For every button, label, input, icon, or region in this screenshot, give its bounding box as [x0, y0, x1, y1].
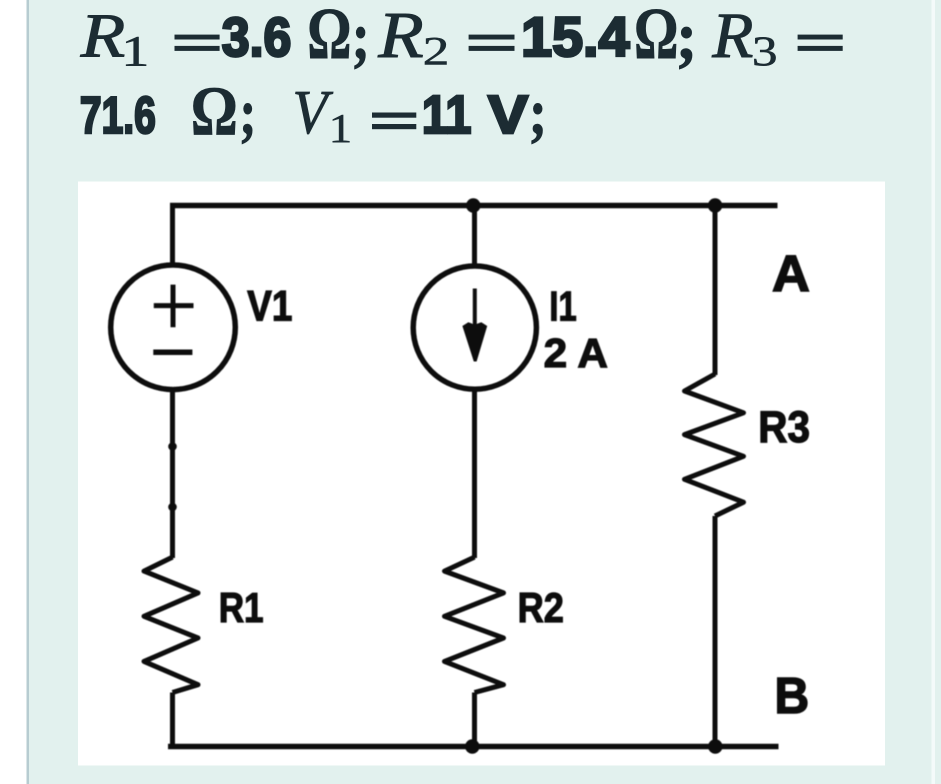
svg-text:;: ;	[529, 76, 547, 148]
wire V1 to R1	[170, 390, 175, 558]
svg-text:B: B	[775, 668, 810, 725]
header equals 1	[175, 35, 220, 40]
I1 arrowhead	[462, 322, 487, 361]
I1 arrow shaft	[473, 289, 477, 329]
wire left branch top	[170, 203, 175, 265]
svg-text:V: V	[293, 78, 334, 147]
wire top horizontal	[170, 203, 778, 209]
svg-text:V: V	[488, 85, 528, 145]
current source I1 circle	[413, 266, 536, 389]
svg-text:V1: V1	[247, 283, 292, 330]
svg-text:1: 1	[121, 27, 149, 75]
svg-text:;: ;	[352, 0, 370, 74]
svg-text:R2: R2	[518, 586, 564, 632]
resistor R2 zigzag	[445, 557, 504, 692]
svg-text:R: R	[80, 0, 126, 70]
V1 plus sign	[154, 285, 194, 328]
svg-text:15.4: 15.4	[521, 6, 629, 68]
wire middle branch top	[472, 203, 477, 266]
svg-text:3: 3	[752, 29, 778, 76]
wire R2 to bottom	[472, 693, 477, 747]
tick dot lower left wire	[168, 503, 177, 512]
svg-text:R3: R3	[758, 402, 810, 452]
junction dot top right	[708, 198, 722, 212]
svg-text:R1: R1	[219, 585, 264, 632]
svg-text:2: 2	[423, 30, 450, 74]
wire I1 to R2	[472, 389, 477, 558]
junction dot bottom middle	[465, 739, 479, 753]
svg-text:71.6: 71.6	[80, 85, 156, 144]
svg-text:R: R	[377, 0, 424, 72]
header equals 4	[372, 113, 416, 118]
svg-text:A: A	[772, 245, 810, 302]
V1 minus sign	[153, 350, 192, 356]
svg-text:Ω: Ω	[634, 0, 678, 75]
svg-text:11: 11	[422, 84, 472, 145]
svg-text:Ω: Ω	[307, 0, 351, 75]
wire right branch top	[713, 203, 718, 375]
voltage source V1 circle	[111, 265, 236, 390]
resistor R3 zigzag	[685, 374, 744, 516]
header equals 3	[798, 35, 843, 40]
svg-text:;: ;	[676, 0, 697, 73]
svg-text:3.6: 3.6	[222, 7, 292, 69]
svg-text:R: R	[711, 0, 753, 71]
svg-text:1: 1	[329, 106, 353, 151]
wire bottom horizontal	[168, 744, 779, 750]
svg-text:I1: I1	[549, 283, 576, 330]
junction dot bottom right	[708, 739, 722, 753]
wire R3 to bottom	[713, 516, 718, 747]
svg-text:2 A: 2 A	[544, 331, 608, 376]
svg-text:;: ;	[240, 78, 257, 148]
svg-text:Ω: Ω	[191, 73, 238, 150]
wire R1 to bottom	[170, 693, 175, 747]
junction dot top middle	[466, 198, 480, 212]
tick dot upper left wire	[168, 442, 177, 451]
circuit canvas	[78, 182, 885, 766]
header equals 2	[469, 35, 515, 40]
resistor R1 zigzag	[144, 557, 198, 692]
